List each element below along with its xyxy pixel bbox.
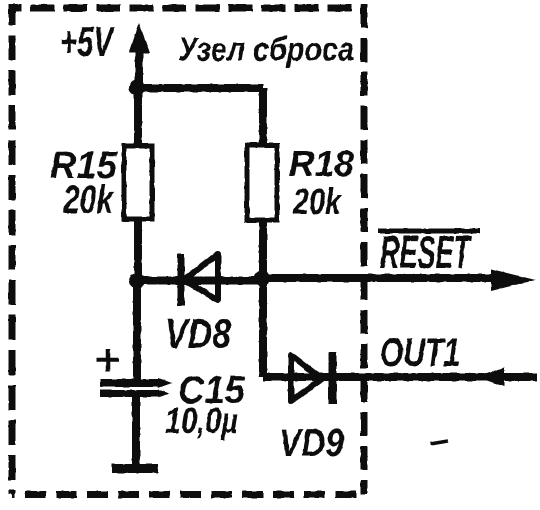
svg-text:VD8: VD8 bbox=[165, 310, 232, 357]
svg-text:20k: 20k bbox=[292, 181, 342, 222]
svg-text:20k: 20k bbox=[62, 178, 114, 222]
svg-text:VD9: VD9 bbox=[279, 422, 344, 465]
svg-text:R18: R18 bbox=[289, 143, 354, 184]
svg-text:+5V: +5V bbox=[60, 18, 115, 65]
svg-text:RESET: RESET bbox=[380, 226, 472, 278]
svg-text:10,0µ: 10,0µ bbox=[165, 400, 238, 441]
svg-text:OUT1: OUT1 bbox=[380, 331, 460, 375]
svg-text:Узел сброса: Узел сброса bbox=[178, 31, 354, 68]
